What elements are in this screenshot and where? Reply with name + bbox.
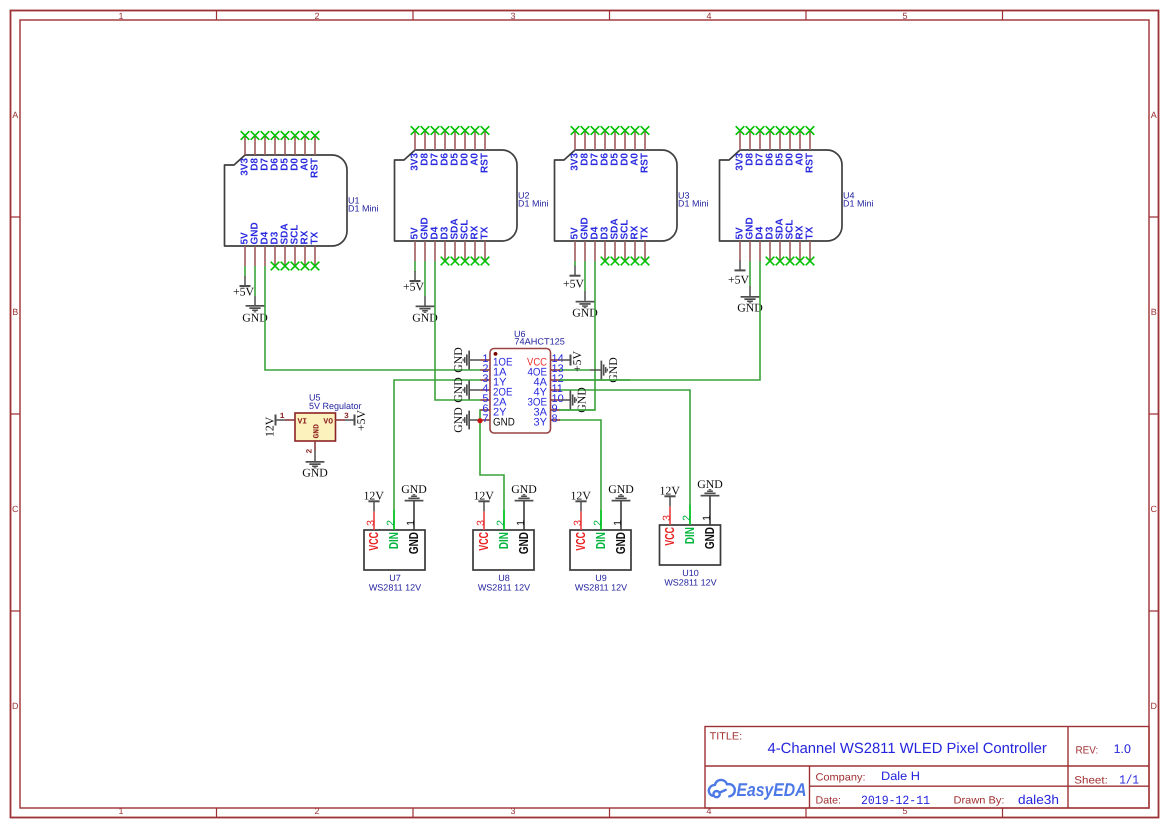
svg-text:GND: GND — [451, 347, 465, 373]
+5V power flag at U1 — [233, 276, 255, 299]
svg-text:2: 2 — [495, 520, 507, 526]
no-connect flags U1 bottom pins — [271, 262, 320, 271]
svg-text:+5V: +5V — [403, 280, 425, 294]
wire U6 pin 6 (2Y) to U8 DIN — [480, 410, 504, 530]
svg-text:12V: 12V — [660, 484, 681, 498]
svg-text:RST: RST — [480, 153, 491, 173]
U10 VCC pin 3 — [661, 506, 677, 545]
ground symbol at U5 pin 2 — [302, 450, 328, 480]
svg-text:DIN: DIN — [496, 532, 511, 549]
no-connect flags U4 bottom pins — [766, 257, 815, 266]
svg-text:DIN: DIN — [386, 532, 401, 549]
svg-text:D1 Mini: D1 Mini — [518, 199, 549, 209]
designator label U2 — [518, 191, 549, 209]
svg-text:U10: U10 — [682, 568, 699, 578]
svg-text:GND: GND — [511, 482, 537, 496]
+5V power flag at U4 — [728, 260, 750, 286]
svg-text:4: 4 — [706, 11, 711, 21]
svg-text:WS2811 12V: WS2811 12V — [478, 583, 530, 593]
U6 pin numbers — [482, 353, 563, 425]
U9 VCC pin 3 — [572, 511, 588, 550]
svg-text:TX: TX — [480, 226, 491, 239]
U8 DIN pin 2 — [495, 510, 511, 549]
svg-text:2: 2 — [385, 520, 397, 526]
svg-text:1/1: 1/1 — [1119, 773, 1139, 787]
no-connect flags U3 bottom pins — [601, 257, 650, 266]
svg-text:5V Regulator: 5V Regulator — [309, 401, 362, 411]
svg-text:+5V: +5V — [570, 350, 584, 372]
svg-text:3: 3 — [510, 11, 515, 21]
svg-text:VCC: VCC — [366, 532, 381, 551]
ground symbol at U8 GND — [511, 482, 537, 502]
svg-text:7: 7 — [482, 413, 488, 425]
svg-text:+5V: +5V — [233, 285, 255, 299]
+5V power flag at U5 VO — [345, 409, 368, 431]
wire U6 pin 3 (1Y) to U7 DIN — [394, 380, 481, 530]
svg-text:12V: 12V — [263, 416, 277, 437]
svg-text:1: 1 — [118, 806, 123, 816]
svg-text:RST: RST — [310, 158, 321, 178]
svg-text:1: 1 — [118, 11, 123, 21]
wire U4 D4 to U6 pin 12 (4A) overdraw — [559, 379, 630, 381]
wire U6 pin 11 (4Y) to U10 DIN — [559, 390, 690, 525]
svg-text:D1 Mini: D1 Mini — [678, 199, 709, 209]
svg-text:GND: GND — [302, 466, 328, 480]
svg-text:1: 1 — [701, 515, 713, 521]
U5 pin 2 (GND) — [306, 424, 322, 454]
connector U10 (WS2811 12V) body — [660, 525, 721, 565]
ground symbol at U9 GND — [608, 482, 634, 502]
designator label U3 — [678, 191, 709, 209]
svg-text:Drawn By:: Drawn By: — [954, 795, 1005, 807]
voltage regulator U5 body — [295, 413, 336, 441]
svg-text:TX: TX — [310, 231, 321, 244]
connector U9 (WS2811 12V) body — [570, 530, 631, 570]
svg-text:RST: RST — [805, 153, 816, 173]
svg-text:GND: GND — [493, 417, 515, 429]
no-connect flags U1 top pins — [241, 131, 320, 140]
svg-text:2: 2 — [314, 11, 319, 21]
wire U1 D4 to U6 pin 2 (1A) — [265, 266, 481, 370]
svg-text:1: 1 — [515, 520, 527, 526]
svg-text:B: B — [12, 307, 18, 317]
svg-text:A: A — [1151, 110, 1157, 120]
svg-text:3: 3 — [365, 520, 377, 526]
ground symbol at U10 GND — [697, 477, 723, 497]
svg-text:+5V: +5V — [728, 273, 750, 287]
svg-text:12V: 12V — [364, 489, 385, 503]
designator label U10 — [664, 568, 716, 588]
svg-text:DIN: DIN — [593, 532, 608, 549]
svg-text:5: 5 — [902, 11, 907, 21]
wire U3 D4 to U6 pin 9 (3A) overdraw — [559, 409, 595, 411]
12V power flag at U10 VCC — [660, 484, 681, 507]
svg-text:12V: 12V — [571, 489, 592, 503]
svg-text:C: C — [12, 504, 19, 514]
svg-text:GND: GND — [613, 532, 628, 554]
module U3 (D1 Mini) — [555, 131, 678, 262]
U9 GND pin 1 — [612, 502, 628, 555]
svg-text:+5V: +5V — [354, 409, 368, 431]
designator label U5 — [309, 393, 362, 412]
ground flag at U6 pin 4 — [451, 377, 480, 403]
wire U2 D4 to U6 pin 5 (2A) — [435, 261, 481, 400]
wire U6 pin 8 (3Y) to U9 DIN — [559, 420, 601, 530]
svg-text:D1 Mini: D1 Mini — [843, 199, 874, 209]
ground symbol at U3 — [572, 291, 598, 319]
connector U8 (WS2811 12V) body — [473, 530, 534, 570]
wire U3 GND to ground — [584, 261, 586, 291]
svg-text:D: D — [12, 701, 19, 711]
+5V power flag at U3 — [563, 266, 585, 291]
svg-text:3: 3 — [475, 520, 487, 526]
svg-text:Sheet:: Sheet: — [1074, 774, 1108, 786]
svg-text:VCC: VCC — [662, 527, 677, 546]
svg-text:dale3h: dale3h — [1018, 792, 1059, 807]
wire U1 GND to ground — [254, 266, 256, 296]
svg-text:2: 2 — [314, 806, 319, 816]
svg-text:U7: U7 — [389, 573, 401, 583]
svg-text:3Y: 3Y — [534, 417, 548, 429]
U5 pin 3 (VO) — [323, 412, 349, 427]
junction (GND net crosses 2Y wire at U6 pin 7) — [477, 418, 482, 423]
svg-text:2: 2 — [306, 449, 315, 454]
U5 pin 1 (VI) — [280, 412, 308, 427]
ground flag at U6 pin 10 (3OE) — [560, 387, 589, 413]
title block — [705, 727, 1149, 809]
svg-text:U8: U8 — [498, 573, 510, 583]
svg-text:DIN: DIN — [682, 527, 697, 544]
svg-text:WS2811 12V: WS2811 12V — [664, 578, 716, 588]
designator label U8 — [478, 573, 530, 593]
svg-text:C: C — [1150, 504, 1157, 514]
U9 DIN pin 2 — [592, 510, 608, 549]
svg-text:2019-12-11: 2019-12-11 — [861, 794, 930, 808]
op-amp buffer U6 74AHCT125 body — [490, 349, 551, 434]
svg-text:GND: GND — [575, 387, 589, 413]
12V power flag at U8 VCC — [474, 489, 495, 512]
svg-text:GND: GND — [608, 482, 634, 496]
+5V power flag at U6 pin 14 (VCC) — [560, 350, 584, 372]
svg-text:GND: GND — [401, 482, 427, 496]
svg-text:2: 2 — [681, 515, 693, 521]
svg-text:VI: VI — [298, 418, 308, 427]
svg-text:GND: GND — [702, 527, 717, 549]
EasyEDA logo — [709, 779, 807, 800]
svg-text:REV:: REV: — [1076, 744, 1099, 756]
designator label U4 — [843, 191, 874, 209]
no-connect flags U2 top pins — [411, 126, 490, 135]
svg-text:GND: GND — [406, 532, 421, 554]
ground flag at U6 pin 7 — [451, 407, 480, 433]
wire U2 5V to +5V flag — [414, 261, 416, 272]
svg-text:1: 1 — [612, 520, 624, 526]
svg-text:D1 Mini: D1 Mini — [348, 204, 379, 214]
svg-text:Company:: Company: — [816, 772, 866, 784]
no-connect flags U4 top pins — [736, 126, 815, 135]
U7 GND pin 1 — [405, 502, 421, 555]
ground flag at U6 pin 1 — [451, 347, 480, 373]
module U2 (D1 Mini) — [395, 131, 518, 262]
no-connect flags U2 bottom pins — [441, 257, 490, 266]
designator label U1 — [348, 196, 379, 214]
svg-text:GND: GND — [451, 407, 465, 433]
+5V power flag at U2 — [403, 271, 425, 294]
svg-text:A: A — [12, 110, 18, 120]
connector U7 (WS2811 12V) body — [364, 530, 425, 570]
svg-text:U9: U9 — [595, 573, 607, 583]
ground symbol at U4 — [737, 286, 763, 315]
svg-text:D: D — [1150, 701, 1157, 711]
U10 DIN pin 2 — [681, 505, 697, 544]
ground symbol at U1 — [242, 296, 268, 325]
svg-text:VCC: VCC — [476, 532, 491, 551]
wire U2 GND to ground — [424, 261, 426, 296]
svg-text:WS2811 12V: WS2811 12V — [369, 583, 421, 593]
svg-text:8: 8 — [552, 413, 558, 425]
svg-text:TX: TX — [640, 226, 651, 239]
12V power flag at U5 VI — [263, 415, 286, 438]
U10 GND pin 1 — [701, 497, 717, 550]
svg-text:4-Channel WS2811 WLED Pixel Co: 4-Channel WS2811 WLED Pixel Controller — [768, 741, 1047, 757]
svg-text:74AHCT125: 74AHCT125 — [514, 337, 565, 347]
svg-text:EasyEDA: EasyEDA — [737, 779, 807, 800]
svg-text:Dale H: Dale H — [881, 769, 920, 783]
module U4 (D1 Mini) — [720, 131, 843, 262]
svg-text:1.0: 1.0 — [1114, 742, 1131, 756]
svg-text:WS2811 12V: WS2811 12V — [575, 583, 627, 593]
designator label U9 — [575, 573, 627, 593]
svg-text:2: 2 — [592, 520, 604, 526]
wire U6 pin 13 (4OE) to ground — [559, 369, 590, 371]
designator label U6 — [514, 329, 565, 347]
wire U4 D4 to U6 pin 12 (4A) — [559, 261, 760, 380]
svg-text:12V: 12V — [474, 489, 495, 503]
wire U1 5V to +5V flag — [244, 266, 246, 277]
12V power flag at U9 VCC — [571, 489, 592, 512]
svg-text:RST: RST — [640, 153, 651, 173]
svg-text:GND: GND — [697, 477, 723, 491]
wire U3 D4 to U6 pin 9 (3A) — [559, 261, 595, 410]
ground symbol at U2 — [412, 296, 438, 325]
svg-text:1: 1 — [405, 520, 417, 526]
svg-text:3: 3 — [661, 515, 673, 521]
U8 GND pin 1 — [515, 502, 531, 555]
U8 VCC pin 3 — [475, 511, 491, 550]
svg-text:GND: GND — [606, 357, 620, 383]
svg-text:TITLE:: TITLE: — [710, 731, 743, 743]
ground flag at U6 pin 13 (4OE) — [590, 357, 620, 383]
U7 VCC pin 3 — [365, 511, 381, 550]
svg-text:GND: GND — [313, 424, 322, 439]
no-connect flags U3 top pins — [571, 126, 650, 135]
wire U3 5V to +5V flag — [574, 261, 576, 266]
svg-text:+5V: +5V — [563, 277, 585, 291]
svg-text:3: 3 — [572, 520, 584, 526]
wire U4 GND to ground — [749, 261, 751, 286]
svg-text:GND: GND — [516, 532, 531, 554]
svg-text:TX: TX — [805, 226, 816, 239]
U6 pin stubs — [481, 360, 561, 420]
12V power flag at U7 VCC — [364, 489, 385, 512]
svg-text:3: 3 — [510, 806, 515, 816]
svg-text:Date:: Date: — [816, 795, 842, 807]
svg-text:VO: VO — [323, 418, 333, 427]
designator label U7 — [369, 573, 421, 593]
svg-text:B: B — [1151, 307, 1157, 317]
ground symbol at U7 GND — [401, 482, 427, 502]
svg-text:VCC: VCC — [573, 532, 588, 551]
U7 DIN pin 2 — [385, 510, 401, 549]
U6 pin names — [493, 357, 548, 429]
module U1 (D1 Mini) — [225, 136, 348, 267]
svg-text:GND: GND — [451, 377, 465, 403]
